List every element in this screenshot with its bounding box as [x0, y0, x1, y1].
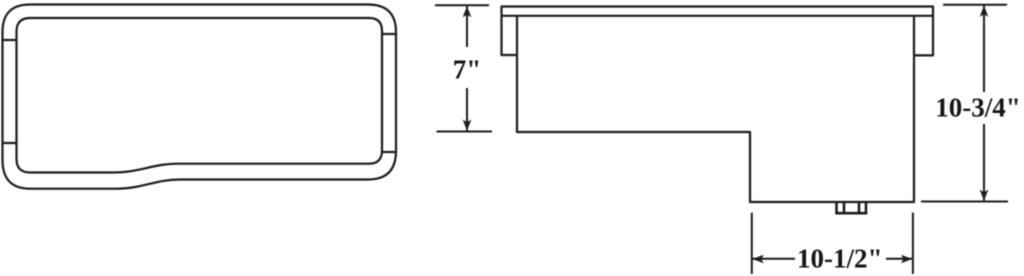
gasket seam bottom-left [3, 142, 17, 144]
side view: left tab (timing cover lip) [502, 16, 518, 55]
dimension 10-1/2 inch: left extension line [751, 213, 753, 274]
side view: pan body profile [517, 16, 914, 202]
oil pan top view: inner rim contour [17, 18, 383, 173]
dimension 10-3/4 inch: upper arrow shaft [983, 6, 985, 93]
dimension 7 inch: top extension line [435, 4, 489, 6]
gasket seam top-left [3, 39, 17, 41]
oil pan top view: outer flange contour [3, 5, 397, 189]
drain plug bung outline [837, 202, 867, 213]
arrowhead 10-3/4 inch up [980, 6, 989, 17]
dimension 10-3/4 inch: lower arrow shaft [983, 124, 985, 201]
arrowhead 10-1/2 inch left [753, 255, 764, 264]
dimension 10-3/4 inch: bottom extension line [921, 201, 1008, 203]
dimension 10-1/2 inch: right extension line [912, 213, 914, 274]
arrowhead 7 inch down [463, 120, 472, 131]
arrowhead 7 inch up [463, 6, 472, 17]
gasket seam top-right [382, 33, 396, 35]
dimension 7 inch: upper arrow shaft [466, 6, 468, 47]
dimension 10-1/2 inch: left arrow shaft [753, 258, 796, 260]
svg-text:10-1/2": 10-1/2" [797, 243, 882, 273]
dimension 10-3/4 inch: top extension line [943, 4, 1007, 6]
side view: top flange rail [502, 7, 934, 16]
dimension 7 inch: lower arrow shaft [466, 88, 468, 131]
dimension 7 inch: bottom extension line [437, 131, 493, 133]
drain plug facet line right [858, 202, 861, 213]
gasket seam bottom-right [382, 151, 396, 153]
arrowhead 10-1/2 inch right [901, 255, 912, 264]
side view: right tab (rear seal lip) [914, 16, 933, 56]
svg-text:7": 7" [453, 55, 482, 85]
svg-text:10-3/4": 10-3/4" [935, 93, 1020, 123]
dimension 10-1/2 inch: right arrow shaft [886, 258, 912, 260]
drain plug facet line left [843, 202, 846, 213]
arrowhead 10-3/4 inch down [980, 190, 989, 201]
